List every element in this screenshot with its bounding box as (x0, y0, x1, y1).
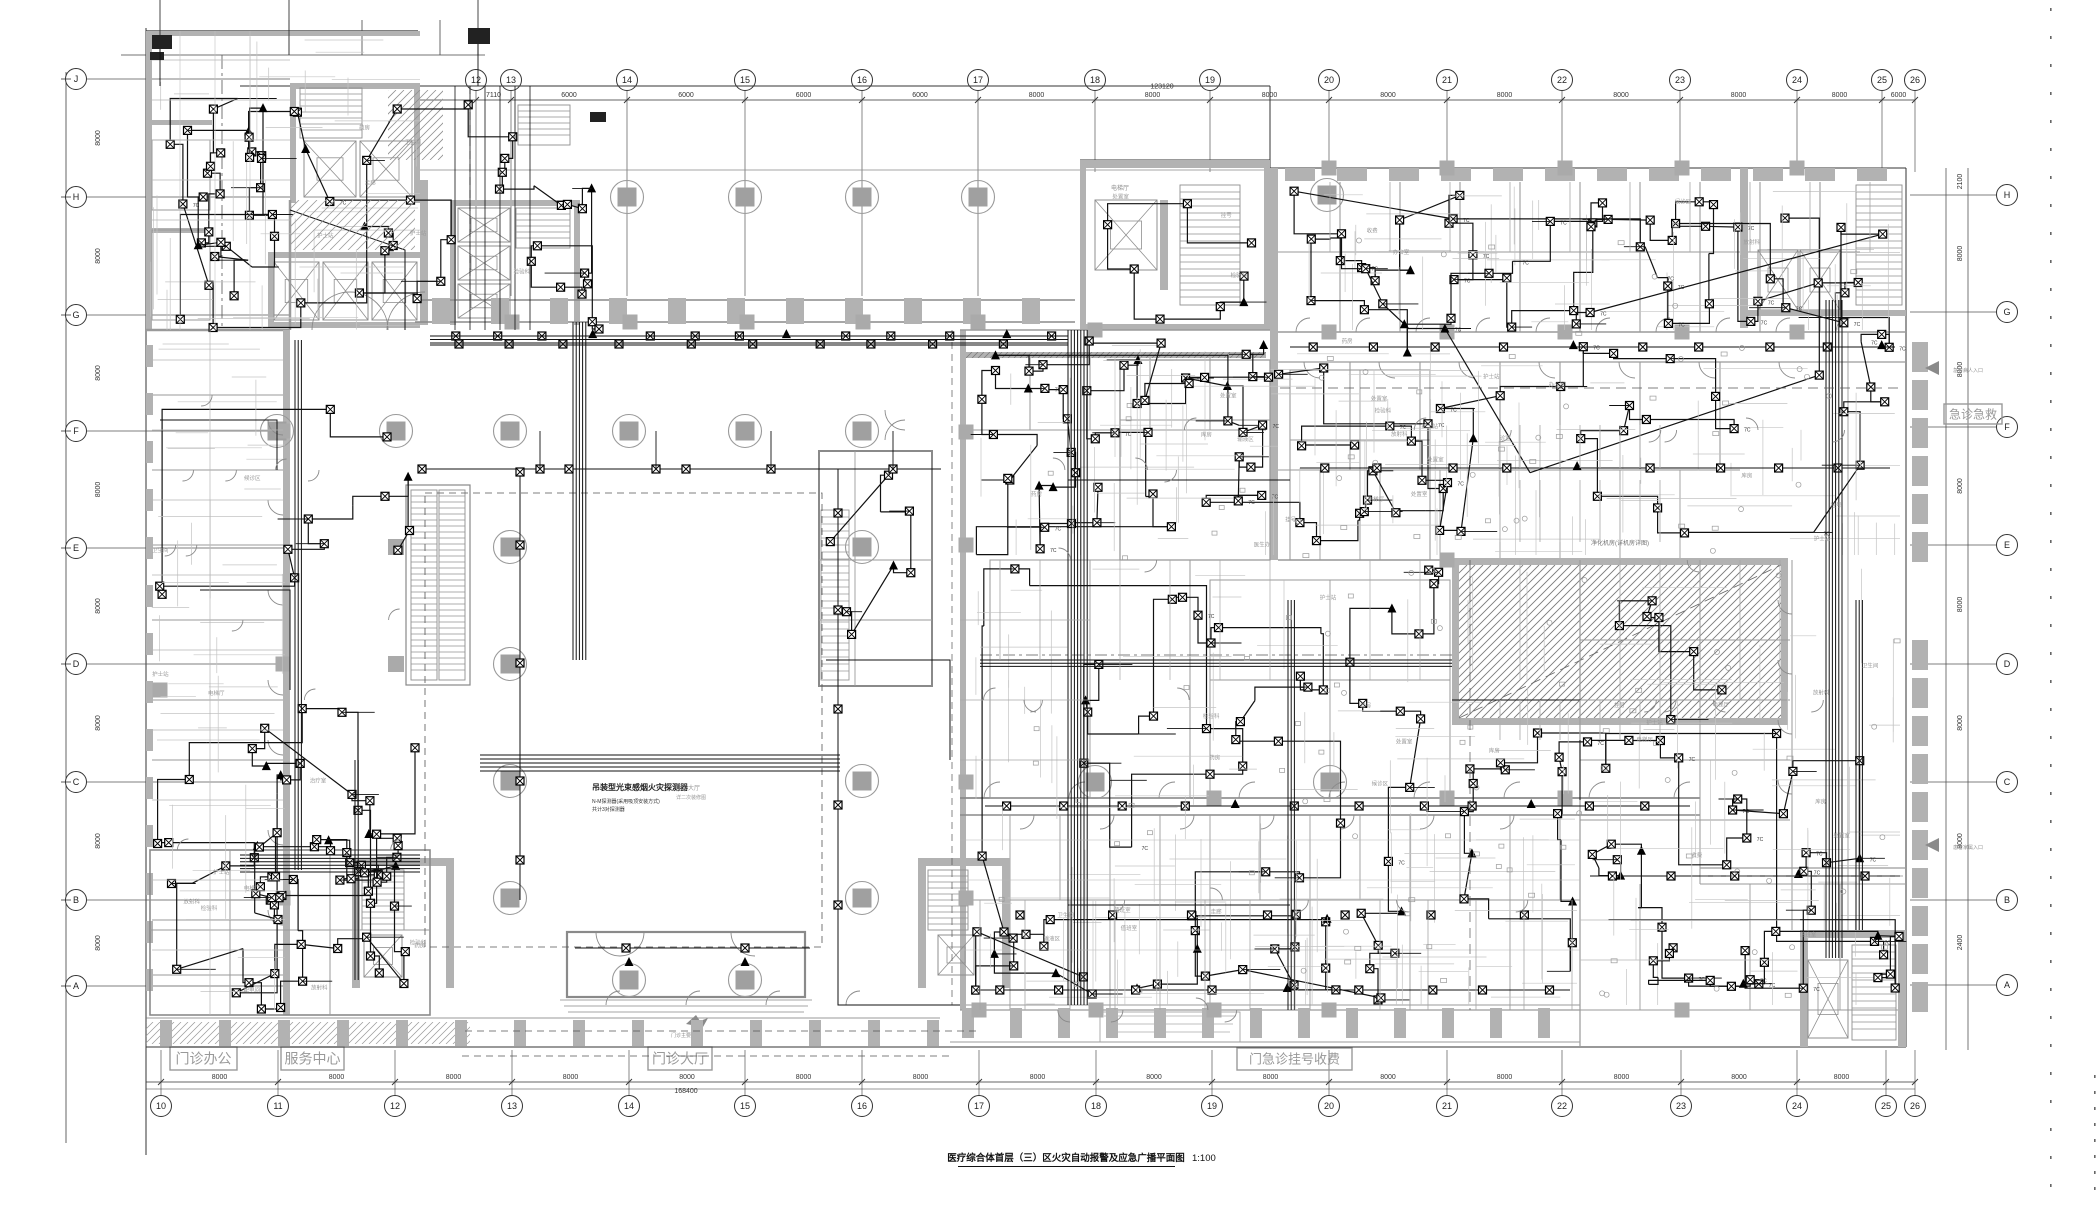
svg-text:21: 21 (1442, 75, 1452, 85)
svg-text:7C: 7C (1273, 424, 1280, 430)
svg-text:门诊大厅: 门诊大厅 (676, 784, 700, 792)
svg-text:8000: 8000 (1832, 92, 1848, 99)
svg-text:护士站: 护士站 (1422, 422, 1439, 430)
svg-text:办公室: 办公室 (1549, 380, 1566, 388)
svg-text:8000: 8000 (446, 1074, 462, 1081)
svg-text:6000: 6000 (678, 92, 694, 99)
svg-text:19: 19 (1205, 75, 1215, 85)
svg-text:检验科: 检验科 (1375, 406, 1392, 414)
svg-text:F: F (73, 426, 79, 436)
svg-text:7C: 7C (1050, 548, 1057, 554)
svg-text:8000: 8000 (1497, 1074, 1513, 1081)
svg-text:8000: 8000 (212, 1074, 228, 1081)
svg-text:护士站: 护士站 (410, 229, 427, 237)
svg-text:处置室: 处置室 (1220, 392, 1237, 400)
svg-text:7C: 7C (1055, 387, 1062, 393)
svg-text:护士站: 护士站 (1320, 594, 1337, 602)
svg-text:7C: 7C (1438, 423, 1445, 429)
svg-text:17: 17 (974, 1101, 984, 1111)
svg-text:8000: 8000 (1030, 1074, 1046, 1081)
svg-text:药房: 药房 (1342, 337, 1354, 345)
svg-text:8000: 8000 (1380, 92, 1396, 99)
svg-text:医生办: 医生办 (1254, 541, 1271, 549)
svg-text:22: 22 (1557, 75, 1567, 85)
svg-text:库房: 库房 (1201, 431, 1213, 439)
svg-text:8000: 8000 (1146, 1074, 1162, 1081)
svg-text:F: F (2004, 422, 2010, 432)
svg-text:7C: 7C (1678, 322, 1685, 328)
svg-text:8000: 8000 (95, 248, 102, 264)
svg-text:8000: 8000 (95, 598, 102, 614)
svg-text:J: J (74, 74, 79, 84)
svg-text:1:100: 1:100 (1192, 1153, 1216, 1164)
svg-text:走廊: 走廊 (365, 178, 377, 186)
svg-text:D: D (2004, 659, 2011, 669)
svg-text:2400: 2400 (1957, 935, 1964, 951)
svg-text:7C: 7C (1768, 300, 1775, 306)
svg-text:8000: 8000 (563, 1074, 579, 1081)
svg-text:处置室: 处置室 (1371, 394, 1388, 402)
svg-text:23: 23 (1676, 1101, 1686, 1111)
svg-text:7C: 7C (1748, 226, 1755, 232)
svg-text:6000: 6000 (561, 92, 577, 99)
svg-text:8000: 8000 (1497, 92, 1513, 99)
svg-text:输液区: 输液区 (1044, 935, 1061, 943)
svg-text:共计3对探测器: 共计3对探测器 (592, 806, 625, 813)
svg-text:7C: 7C (1523, 260, 1530, 266)
svg-text:14: 14 (622, 75, 632, 85)
svg-text:7C: 7C (1142, 846, 1149, 852)
svg-text:患者家属入口: 患者家属入口 (1953, 844, 1983, 851)
svg-text:25: 25 (1877, 75, 1887, 85)
svg-text:检验科: 检验科 (1203, 712, 1220, 720)
svg-text:医疗综合体首层（三）区火灾自动报警及应急广播平面图: 医疗综合体首层（三）区火灾自动报警及应急广播平面图 (947, 1152, 1185, 1164)
svg-text:8000: 8000 (913, 1074, 929, 1081)
svg-text:7C: 7C (1372, 267, 1379, 273)
svg-text:处置室: 处置室 (1112, 192, 1129, 200)
svg-text:8000: 8000 (1029, 92, 1045, 99)
svg-text:15: 15 (740, 1101, 750, 1111)
svg-text:6000: 6000 (1891, 92, 1907, 99)
svg-text:库房: 库房 (1741, 471, 1753, 479)
svg-text:6000: 6000 (912, 92, 928, 99)
svg-text:护士站: 护士站 (1483, 372, 1500, 380)
svg-text:C: C (73, 777, 80, 787)
svg-text:7C: 7C (1814, 870, 1821, 876)
svg-text:7C: 7C (1689, 757, 1696, 763)
svg-text:处置室: 处置室 (1833, 832, 1850, 840)
svg-text:23: 23 (1675, 75, 1685, 85)
svg-text:检验科: 检验科 (514, 267, 531, 275)
svg-text:26: 26 (1910, 1101, 1920, 1111)
svg-text:13: 13 (507, 1101, 517, 1111)
svg-text:17: 17 (973, 75, 983, 85)
svg-text:7C: 7C (1600, 312, 1607, 318)
svg-text:8000: 8000 (95, 365, 102, 381)
svg-text:处置室: 处置室 (1411, 490, 1428, 498)
svg-text:挂号: 挂号 (1285, 516, 1297, 524)
svg-text:门诊大厅: 门诊大厅 (652, 1051, 708, 1067)
svg-text:8000: 8000 (1957, 478, 1964, 494)
svg-text:C: C (2004, 777, 2011, 787)
svg-text:A: A (2004, 980, 2010, 990)
svg-text:值班室: 值班室 (1121, 924, 1138, 932)
svg-text:护士站: 护士站 (1646, 719, 1663, 727)
svg-text:电梯厅: 电梯厅 (1712, 700, 1729, 708)
svg-text:8000: 8000 (1957, 246, 1964, 262)
svg-text:19: 19 (1207, 1101, 1217, 1111)
svg-text:护士站: 护士站 (213, 868, 230, 876)
svg-text:20: 20 (1324, 1101, 1334, 1111)
svg-text:7C: 7C (1854, 322, 1861, 328)
svg-text:22: 22 (1557, 1101, 1567, 1111)
svg-text:电梯厅: 电梯厅 (1368, 495, 1385, 503)
svg-text:7C: 7C (1055, 526, 1062, 532)
svg-text:门急诊挂号收费: 门急诊挂号收费 (1249, 1052, 1340, 1067)
svg-text:6000: 6000 (796, 92, 812, 99)
svg-text:卫生间: 卫生间 (152, 546, 169, 554)
svg-text:吊装型光束感烟火灾探测器: 吊装型光束感烟火灾探测器 (592, 782, 689, 792)
svg-text:8000: 8000 (95, 715, 102, 731)
svg-text:电梯厅: 电梯厅 (1636, 736, 1653, 744)
svg-text:G: G (72, 310, 79, 320)
svg-text:24: 24 (1792, 75, 1802, 85)
svg-text:E: E (73, 543, 79, 553)
svg-text:放射科: 放射科 (1744, 238, 1761, 246)
svg-text:7C: 7C (1899, 346, 1906, 352)
svg-text:检验科: 检验科 (410, 938, 427, 946)
svg-text:放射科: 放射科 (183, 897, 200, 905)
svg-text:25: 25 (1881, 1101, 1891, 1111)
svg-text:电梯厅: 电梯厅 (244, 884, 261, 892)
svg-text:7C: 7C (1248, 500, 1255, 506)
svg-text:123120: 123120 (1150, 84, 1173, 91)
svg-text:8000: 8000 (95, 935, 102, 951)
svg-text:电梯厅: 电梯厅 (1111, 184, 1129, 192)
svg-text:2100: 2100 (1957, 174, 1964, 190)
svg-text:11: 11 (273, 1101, 282, 1111)
svg-text:诊室: 诊室 (1500, 434, 1512, 442)
svg-text:8000: 8000 (95, 482, 102, 498)
svg-text:A: A (73, 981, 79, 991)
svg-text:挂号: 挂号 (1221, 211, 1233, 219)
svg-text:7C: 7C (1458, 482, 1465, 488)
svg-text:15: 15 (740, 75, 750, 85)
svg-text:7C: 7C (1272, 494, 1279, 500)
svg-text:8000: 8000 (679, 1074, 695, 1081)
svg-text:放射科: 放射科 (311, 984, 328, 992)
svg-text:办公室: 办公室 (1393, 248, 1410, 256)
svg-text:7110: 7110 (486, 92, 501, 99)
svg-text:16: 16 (857, 1101, 867, 1111)
svg-text:8000: 8000 (1957, 597, 1964, 613)
svg-text:10: 10 (156, 1101, 166, 1111)
svg-text:走廊: 走廊 (1211, 908, 1223, 916)
svg-text:收费: 收费 (1367, 227, 1379, 235)
svg-text:N-M探测器(采用吸顶安装方式): N-M探测器(采用吸顶安装方式) (592, 798, 660, 805)
svg-text:挂号: 挂号 (1614, 701, 1626, 709)
svg-text:7C: 7C (1560, 220, 1567, 226)
svg-text:处置室: 处置室 (1396, 737, 1413, 745)
svg-text:挂号: 挂号 (1360, 701, 1372, 709)
svg-text:收费: 收费 (1691, 851, 1703, 859)
svg-text:7C: 7C (1871, 341, 1878, 347)
svg-text:详二次装修图: 详二次装修图 (676, 794, 706, 801)
svg-text:D: D (73, 659, 80, 669)
svg-text:26: 26 (1910, 75, 1920, 85)
svg-text:库房: 库房 (1489, 747, 1501, 755)
svg-text:放射科: 放射科 (1813, 688, 1830, 696)
svg-text:12: 12 (390, 1101, 400, 1111)
svg-text:服务中心: 服务中心 (285, 1051, 341, 1067)
svg-text:值班室: 值班室 (1800, 931, 1817, 939)
svg-text:21: 21 (1442, 1101, 1452, 1111)
svg-text:急诊急救: 急诊急救 (1949, 406, 1997, 421)
svg-text:18: 18 (1091, 1101, 1101, 1111)
svg-text:7C: 7C (1678, 285, 1685, 291)
svg-text:H: H (2004, 190, 2011, 200)
svg-text:候诊区: 候诊区 (1372, 780, 1389, 788)
svg-text:B: B (73, 895, 79, 905)
svg-text:卫生间: 卫生间 (1057, 911, 1074, 919)
svg-text:B: B (2004, 895, 2010, 905)
svg-text:值班室: 值班室 (1114, 906, 1131, 914)
svg-text:14: 14 (624, 1101, 634, 1111)
svg-text:护士站: 护士站 (152, 670, 169, 678)
svg-text:7C: 7C (1598, 741, 1605, 747)
svg-text:8000: 8000 (95, 130, 102, 146)
svg-text:8000: 8000 (95, 833, 102, 849)
svg-text:处置室: 处置室 (1427, 456, 1444, 464)
svg-text:急诊病人入口: 急诊病人入口 (1953, 367, 1983, 374)
svg-text:8000: 8000 (1613, 92, 1629, 99)
svg-text:门诊办公: 门诊办公 (176, 1051, 232, 1067)
svg-text:8000: 8000 (1731, 92, 1747, 99)
svg-text:H: H (73, 192, 80, 202)
svg-text:放射科: 放射科 (1391, 430, 1408, 438)
svg-text:药房: 药房 (359, 123, 371, 131)
svg-text:卫生间: 卫生间 (405, 138, 422, 146)
svg-text:7C: 7C (1813, 987, 1820, 993)
svg-text:8000: 8000 (1731, 1074, 1747, 1081)
svg-text:护士站: 护士站 (317, 231, 334, 239)
svg-text:G: G (2003, 307, 2010, 317)
svg-text:16: 16 (857, 75, 867, 85)
svg-text:8000: 8000 (1263, 1074, 1279, 1081)
svg-text:库房: 库房 (1815, 797, 1827, 805)
svg-text:12: 12 (471, 75, 481, 85)
svg-text:护士站: 护士站 (1814, 535, 1831, 543)
svg-text:8000: 8000 (1145, 92, 1161, 99)
svg-text:7C: 7C (1757, 837, 1764, 843)
svg-text:挂号: 挂号 (1830, 501, 1842, 509)
svg-text:7C: 7C (1761, 320, 1768, 326)
svg-text:7C: 7C (1208, 614, 1215, 620)
svg-text:卫生间: 卫生间 (1862, 661, 1879, 669)
svg-text:7C: 7C (1483, 254, 1490, 260)
svg-text:7C: 7C (1744, 428, 1751, 434)
svg-text:治疗室: 治疗室 (310, 776, 327, 784)
svg-text:配电间: 配电间 (244, 986, 261, 994)
svg-text:药房: 药房 (1031, 490, 1043, 498)
svg-text:7C: 7C (1816, 852, 1823, 858)
svg-text:13: 13 (506, 75, 516, 85)
svg-text:8000: 8000 (329, 1074, 345, 1081)
svg-text:电梯厅: 电梯厅 (208, 689, 225, 697)
svg-text:输液区: 输液区 (1237, 435, 1254, 443)
svg-text:7C: 7C (1796, 307, 1803, 313)
svg-text:E: E (2004, 540, 2010, 550)
svg-text:7C: 7C (1398, 860, 1405, 866)
svg-text:8000: 8000 (796, 1074, 812, 1081)
svg-text:8000: 8000 (1380, 1074, 1396, 1081)
svg-text:检验科: 检验科 (1231, 271, 1248, 279)
svg-text:8000: 8000 (1614, 1074, 1630, 1081)
svg-text:候诊区: 候诊区 (244, 474, 261, 482)
svg-text:20: 20 (1324, 75, 1334, 85)
svg-text:18: 18 (1090, 75, 1100, 85)
svg-text:药房: 药房 (1209, 754, 1221, 762)
svg-text:检验科: 检验科 (201, 904, 218, 912)
svg-text:8000: 8000 (1834, 1074, 1850, 1081)
svg-text:24: 24 (1792, 1101, 1802, 1111)
svg-text:8000: 8000 (1957, 715, 1964, 731)
svg-text:候诊区: 候诊区 (1675, 197, 1692, 205)
